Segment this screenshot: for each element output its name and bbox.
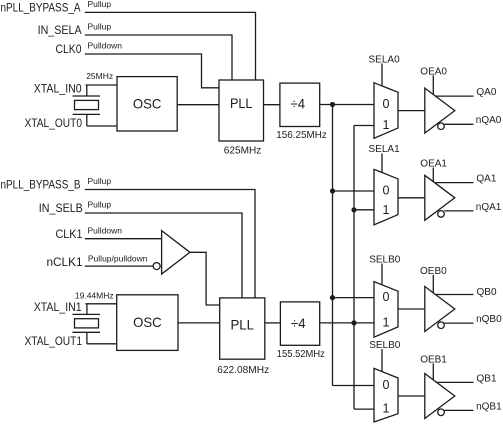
mux SELA1 — [374, 169, 398, 225]
node XTAL_IN1 — [34, 290, 114, 314]
buffer U2 differential input — [153, 231, 190, 274]
wire nPLL_BYPASS_B to PLL B top — [85, 190, 255, 298]
svg-text:÷4: ÷4 — [291, 315, 306, 331]
wire branch to mux B1 input 1 — [354, 408, 374, 410]
wire branch to mux A1 input 0 — [333, 190, 375, 192]
svg-text:nCLK1: nCLK1 — [47, 257, 83, 269]
buffer OEB1 — [425, 374, 455, 419]
svg-text:XTAL_IN1: XTAL_IN1 — [34, 302, 82, 314]
svg-text:1: 1 — [383, 203, 390, 217]
wire CLK1 to input buffer — [85, 238, 162, 240]
wire SELB0 select (upper) — [381, 264, 383, 285]
svg-text:0: 0 — [383, 378, 390, 392]
wire divider B out to mux B0 input 1 — [320, 322, 374, 324]
wire QA0 — [436, 95, 474, 97]
svg-text:0: 0 — [383, 290, 390, 304]
wire SELA1 select — [381, 154, 383, 173]
wire input buffer out to PLL B — [190, 252, 220, 305]
svg-text:QB0: QB0 — [477, 287, 497, 298]
wire OEB0 enable — [432, 275, 434, 293]
junction 155.52 at A1 — [351, 207, 356, 212]
wire branch to mux B0 input 0 — [333, 297, 375, 299]
svg-text:1: 1 — [383, 118, 390, 132]
mux SELB1 — [374, 368, 398, 422]
wire xtal1 bottom stub — [86, 332, 88, 344]
buffer OEA0 — [425, 88, 455, 133]
svg-text:SELB0: SELB0 — [369, 254, 401, 265]
wire mux B0 out — [398, 308, 425, 310]
svg-text:622.08MHz: 622.08MHz — [217, 364, 269, 376]
svg-text:OSC: OSC — [133, 314, 162, 330]
svg-text:625MHz: 625MHz — [224, 144, 261, 156]
svg-text:Pullup: Pullup — [88, 0, 112, 9]
node XTAL_IN0 — [34, 71, 113, 95]
wire branch to mux B1 input 0 — [333, 385, 375, 387]
svg-text:nQA0: nQA0 — [476, 115, 502, 126]
svg-text:CLK1: CLK1 — [56, 229, 83, 241]
wire 156.25 net vertical — [332, 105, 334, 386]
wire 155.52 net vertical — [353, 126, 355, 410]
wire xtal0 top stub — [86, 85, 88, 96]
wire divider A out to mux A0 input 0 — [320, 104, 374, 106]
svg-text:OSC: OSC — [133, 96, 162, 112]
node CLK0 — [56, 41, 123, 57]
svg-text:XTAL_IN0: XTAL_IN0 — [34, 83, 82, 95]
wire nPLL_BYPASS_A to PLL top — [85, 12, 256, 80]
wire mux A1 out — [398, 197, 425, 199]
junction 156.25 at A1 — [330, 188, 335, 193]
divider /4 (A) — [280, 83, 320, 126]
wire CLK0 to PLL left — [85, 54, 219, 88]
svg-text:Pullup: Pullup — [88, 200, 112, 210]
wire OSC to PLL — [177, 104, 219, 106]
wire xtal0 bottom stub — [86, 114, 88, 126]
divider /4 (B) — [280, 302, 319, 345]
svg-text:SELB0: SELB0 — [369, 340, 401, 351]
wire OEB1 enable — [432, 364, 434, 381]
svg-text:QA1: QA1 — [476, 174, 496, 185]
svg-text:PLL: PLL — [230, 316, 254, 332]
svg-text:SELA0: SELA0 — [369, 55, 401, 66]
node IN_SELA — [38, 22, 112, 38]
node CLK1 — [56, 225, 123, 241]
wire SELB0 select (lower) — [381, 349, 383, 372]
wire QB1 — [436, 381, 474, 383]
wire IN_SELA to PLL top — [85, 35, 232, 80]
svg-text:Pulldown: Pulldown — [88, 225, 123, 235]
wire branch to mux A0 input 1 — [354, 125, 374, 127]
buffer OEA1 — [425, 175, 455, 220]
wire XTAL_IN0 to OSC — [86, 84, 117, 86]
svg-text:nPLL_BYPASS_B: nPLL_BYPASS_B — [1, 180, 81, 192]
wire IN_SELB to PLL B top — [85, 213, 242, 298]
wire OEA0 enable — [432, 75, 434, 94]
svg-text:155.52MHz: 155.52MHz — [277, 348, 325, 360]
svg-text:CLK0: CLK0 — [56, 44, 82, 56]
wire nQB1 — [444, 409, 473, 411]
wire SELA0 select — [381, 64, 383, 87]
node nPLL_BYPASS_A — [1, 0, 112, 15]
wire XTAL_OUT0 to OSC — [87, 125, 117, 127]
svg-text:156.25MHz: 156.25MHz — [276, 129, 327, 141]
svg-text:Pullup: Pullup — [88, 22, 112, 32]
wire branch to mux A1 input 1 — [354, 209, 374, 211]
svg-text:nQB1: nQB1 — [476, 402, 502, 413]
crystal Y1 — [73, 314, 101, 332]
svg-text:SELA1: SELA1 — [369, 144, 401, 155]
svg-text:QB1: QB1 — [477, 374, 497, 385]
svg-text:IN_SELA: IN_SELA — [38, 25, 82, 37]
svg-text:1: 1 — [383, 402, 390, 416]
PLL U3 — [220, 298, 265, 359]
svg-text:QA0: QA0 — [476, 87, 496, 98]
wire PLL B to divider B — [265, 322, 281, 324]
mux SELB0 — [374, 282, 398, 338]
svg-text:nQA1: nQA1 — [476, 202, 502, 213]
node nCLK1 — [47, 254, 148, 270]
svg-text:PLL: PLL — [230, 95, 253, 111]
wire XTAL_OUT1 to OSC B — [87, 343, 117, 345]
wire XTAL_IN1 to OSC B — [86, 303, 117, 305]
PLL U1 — [219, 80, 264, 141]
wire xtal1 top stub — [86, 304, 88, 315]
wire OSC B to PLL B — [178, 322, 220, 324]
svg-text:0: 0 — [383, 97, 390, 111]
svg-text:25MHz: 25MHz — [86, 71, 113, 81]
wire QA1 — [435, 182, 473, 184]
svg-text:Pullup: Pullup — [88, 176, 112, 186]
node nPLL_BYPASS_B — [1, 176, 112, 192]
buffer OEB0 — [425, 287, 455, 332]
wire nQB0 — [444, 322, 473, 324]
svg-text:nPLL_BYPASS_A: nPLL_BYPASS_A — [1, 3, 81, 15]
wire nCLK1 to input buffer bubble — [85, 265, 153, 267]
node IN_SELB — [39, 200, 112, 216]
svg-text:0: 0 — [383, 184, 390, 198]
junction 156.25 at divider out — [330, 102, 335, 107]
svg-text:Pulldown: Pulldown — [88, 41, 123, 51]
junction 156.25 at B0 — [330, 295, 335, 300]
wire nQA0 — [444, 123, 473, 125]
mux SELA0 — [374, 83, 398, 139]
svg-text:1: 1 — [383, 315, 390, 329]
wire QB0 — [436, 294, 474, 296]
svg-text:nQB0: nQB0 — [476, 314, 502, 325]
svg-text:IN_SELB: IN_SELB — [39, 203, 83, 215]
svg-text:÷4: ÷4 — [291, 96, 306, 112]
crystal Y0 — [73, 96, 101, 114]
oscillator OSC (A) — [117, 77, 177, 131]
junction 155.52 at divider B out — [351, 320, 356, 325]
wire PLL to divider — [264, 104, 280, 106]
svg-text:19.44MHz: 19.44MHz — [75, 290, 114, 300]
wire nQA1 — [444, 210, 473, 212]
wire mux A0 out — [398, 110, 425, 112]
svg-text:XTAL_OUT0: XTAL_OUT0 — [25, 118, 83, 130]
wire OEA1 enable — [432, 168, 434, 182]
wire mux B1 out — [398, 395, 425, 397]
svg-text:Pullup/pulldown: Pullup/pulldown — [88, 254, 148, 264]
oscillator OSC (B) — [117, 295, 178, 351]
svg-text:XTAL_OUT1: XTAL_OUT1 — [25, 336, 83, 348]
